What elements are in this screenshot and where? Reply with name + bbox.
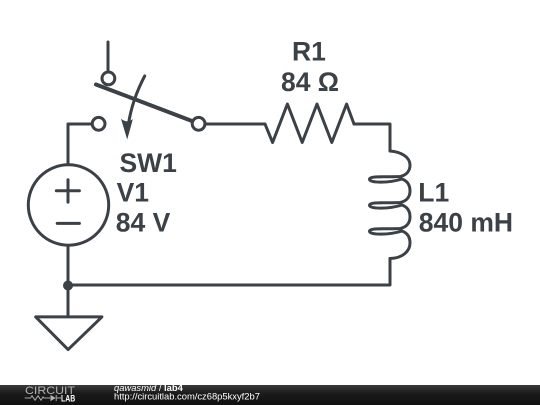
resistor R1 xyxy=(265,104,354,143)
svg-text:R1: R1 xyxy=(292,37,326,67)
wire: inductor bottom to bottom rail xyxy=(68,259,390,286)
svg-text:L1: L1 xyxy=(418,177,449,207)
svg-text:SW1: SW1 xyxy=(120,148,177,178)
wire: junction to ground xyxy=(67,285,70,317)
switch SW1 xyxy=(92,72,205,140)
inductor L1 xyxy=(370,151,411,259)
svg-text:84 Ω: 84 Ω xyxy=(281,67,339,97)
node: junction dot xyxy=(63,281,73,291)
svg-text:84 V: 84 V xyxy=(116,208,171,238)
svg-text:LAB: LAB xyxy=(61,393,75,403)
voltage source V1 xyxy=(28,165,108,245)
CircuitLab logo xyxy=(25,385,76,404)
wire: resistor to inductor top xyxy=(354,124,390,151)
svg-text:840 mH: 840 mH xyxy=(419,207,513,237)
wire: switch top stub xyxy=(107,42,110,72)
svg-text:V1: V1 xyxy=(117,177,149,207)
wire: left switch terminal to source top xyxy=(68,124,91,167)
wire: right switch terminal to resistor xyxy=(207,123,265,126)
svg-text:http://circuitlab.com/cz68p5kx: http://circuitlab.com/cz68p5kxyf2b7 xyxy=(114,391,260,402)
footer credit text xyxy=(114,382,260,402)
ground xyxy=(36,317,102,350)
wire: source bottom to junction xyxy=(67,245,70,285)
